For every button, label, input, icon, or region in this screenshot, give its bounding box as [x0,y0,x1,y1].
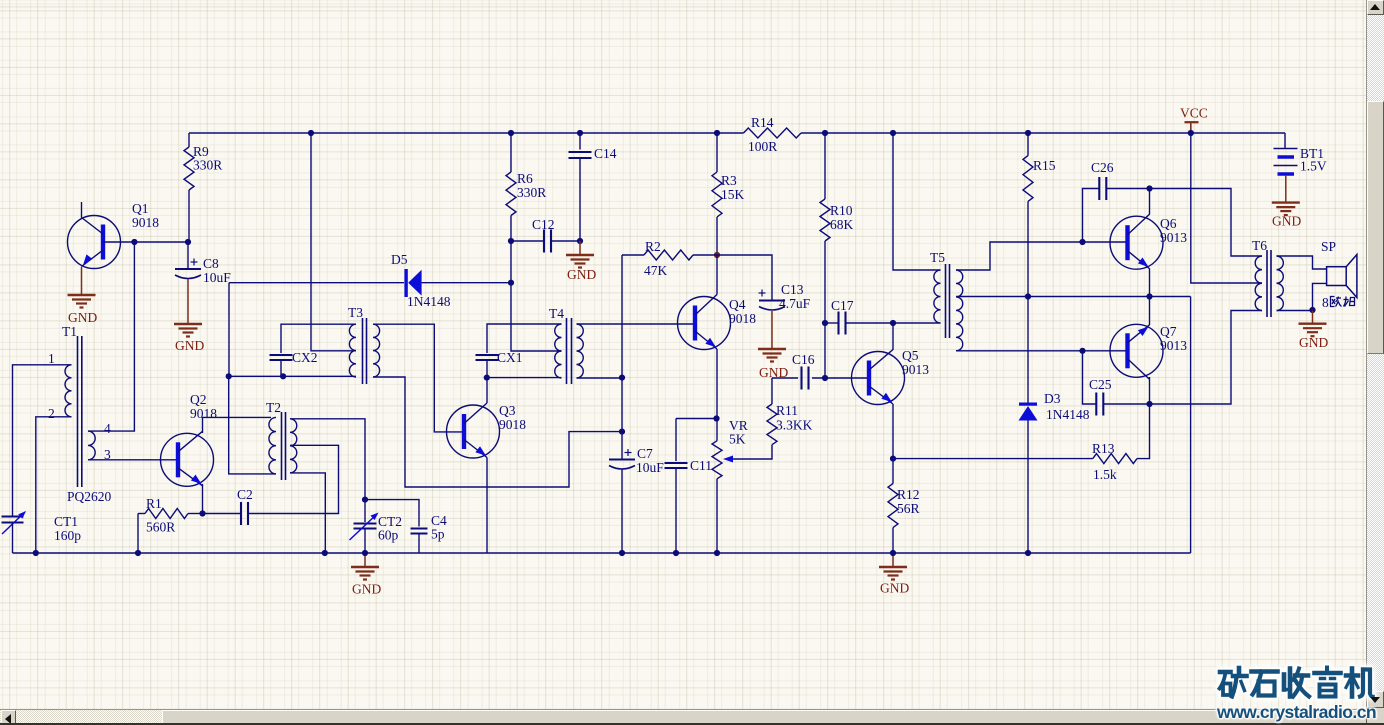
wire T2 right bottom to bus [290,473,325,553]
wire C25 node to T6 left bottom [1150,311,1263,405]
wire T1 pin1 to CT1 [13,365,72,516]
wire T3 middle tap drop from rail [311,133,356,351]
junction base node x134 [131,239,137,245]
junction R10/C17 [822,320,828,326]
capacitor C12 [511,240,544,242]
transformer T4 [566,318,568,384]
junction R2/C7 node [619,429,625,435]
battery BT1 1.5V [1284,133,1286,149]
resistor R13 1.5k [893,458,1093,460]
capacitor C25 [1083,351,1097,404]
wire Q7 collector (bottom) [1149,377,1151,404]
transformer T5 [945,264,947,338]
diode D3 1N4148 [1027,297,1029,405]
capacitor C26 [1083,189,1100,243]
wire T1 pin3 to Q2 base [88,459,176,461]
wire C26 node to T6 left top [1150,189,1263,257]
resistor R2 47K [622,254,644,256]
ground below speaker [1312,311,1314,324]
wire T1 pin2 to bus [36,417,72,553]
wire T6 right top to speaker [1277,256,1327,269]
junction Q5 emitter/R12/R13 [890,456,896,462]
wire R11 to VR wiper [729,445,772,459]
junction rail x893 [890,130,896,136]
capacitor CX2 [270,354,293,356]
capacitor C13 4.7uF [759,300,785,302]
wire rail to T5 left top [893,133,941,270]
junction bus x622 [619,550,625,556]
junction R6/C12 [508,238,514,244]
transformer T2 [281,412,283,480]
junction Q7 base/C25 [1079,348,1085,354]
wire Q4 emitter [716,349,718,419]
transformer T1 PQ2620 [77,336,79,487]
junction T4/R2 vertical [619,375,625,381]
capacitor C7 10uF electrolytic [621,432,623,460]
transformer T6 [1266,250,1268,317]
junction bus x1028 [1025,550,1031,556]
junction Q6 collector/C26 [1146,185,1152,191]
wire Q6 base [1083,241,1126,243]
junction Q6 base/C26 left [1079,239,1085,245]
resistor R1 560R [138,513,145,515]
junction Q7 collector/C25/R13 [1146,401,1152,407]
capacitor C17 [825,322,839,324]
resistor R11 3.3KK [771,378,773,404]
ground below BT1 [1272,201,1300,203]
wire R2 left drop [621,255,623,432]
junction rail x511 [508,130,514,136]
ground below C13 [758,348,786,350]
variable capacitor CT1 160p [2,515,24,517]
junction rail x580 [577,130,583,136]
junction rail x1191 [1188,130,1194,136]
wire T4 right top to Q4 base [577,323,694,325]
wire Q7 emitter (top) [1149,297,1151,326]
junction Q4 base node (red) [714,252,720,258]
wire VCC drop to T6 center tap [1191,133,1262,283]
wire R1 left to bus [137,514,139,554]
resistor R12 56R [892,459,894,484]
potentiometer VR 5K [716,419,718,441]
transistor Q6 9013 [1110,216,1163,269]
wire T1 pin4 to Q1 base node [88,242,134,431]
wire Q6 collector [1149,189,1151,215]
ground below Q1 [68,294,96,296]
junction Q6/Q7 output node [1146,293,1152,299]
wire T5 left bottom [893,322,941,324]
resistor R6 330R [510,133,512,172]
diode D5 1N4148 [229,282,404,284]
junction rail x717 [714,130,720,136]
wire T5 right top [956,242,1083,270]
wire Q4 collector [716,255,718,295]
wire T4 left middle tap from R6/D5 node [511,283,562,351]
vertical scrollbar [1366,0,1384,725]
resistor R15 [1027,133,1029,156]
wire VCC top rail left segment [189,132,744,134]
junction rail x311 [308,130,314,136]
junction D5/R6 node [508,280,514,286]
wire ground bus [13,552,1191,554]
ground below C8 [174,323,202,325]
junction bus x676 [673,550,679,556]
wire output node drop to bus [1190,297,1192,554]
junction bus x35.8 [33,550,39,556]
resistor R10 68K [824,133,826,199]
transistor Q7 9013 [1110,324,1163,377]
wire Q2 collector to T2 [203,417,272,433]
junction Q2 emitter/R1 [199,510,205,516]
wire T5 middle tap to output node [956,296,1191,298]
transistor Q1 9018 [68,216,121,269]
junction bus x717 [714,550,720,556]
wire Q1 emitter to ground [81,267,83,295]
junction base node x188 [185,239,191,245]
wire Q4 node to C13 [717,255,772,301]
junction R10/C16/Q5base [822,375,828,381]
junction CX1/T4 bottom [484,375,490,381]
speaker SP 8 ohm [1327,267,1347,286]
wire D5 anode node down [228,283,230,377]
wire node to T3 bottom [229,375,356,377]
wire T5 right bottom to Q7 base [956,350,1126,352]
wire BT1 to ground [1285,176,1287,203]
junction R15/D3 node [1025,293,1031,299]
junction Q4 emitter/VR/C11 [713,415,719,421]
variable capacitor CT2 60p [364,500,366,522]
resistor R3 15K [716,133,718,172]
horizontal scrollbar [0,709,1367,725]
wire Q5 emitter [892,404,894,459]
wire T2 right top to CT2 [290,419,365,500]
transistor Q3 9018 [447,405,500,458]
junction bus x324.8 [322,550,328,556]
wire VCC top rail right segment [801,132,1285,134]
wire T2 left bottom to node [229,376,276,474]
junction C17/T5/Q5 collector [890,320,896,326]
ground below CT2 at bus [364,553,366,567]
wire Q6 emitter [1149,269,1151,297]
capacitor C8 10uF electrolytic [187,242,189,269]
wire CX2 top to T3 top tap [281,324,356,353]
wire T3 right top to Q3 base [373,324,462,432]
transistor Q5 9013 [852,352,905,405]
transistor Q2 9018 [161,433,214,486]
resistor R14 (inline in rail) [744,128,802,138]
wire speaker bottom to T6 right bottom [1277,283,1327,310]
capacitor C2 [203,513,242,515]
wire Q3 emitter to bus [486,458,488,554]
wire Q5 collector [892,323,894,350]
ground below R12 at bus [892,553,894,567]
small chinese label (ohm) glyphs [1331,297,1355,307]
ground below C14/C12 [579,241,581,255]
resistor R9 [188,133,190,147]
wire CT1 to bus [12,523,14,554]
transformer T3 [362,318,364,384]
transistor Q4 9018 [678,297,731,350]
wire Q3 collector up [486,378,488,403]
capacitor C4 5p [365,500,419,527]
wire Q2 emitter down [202,484,204,514]
power VCC symbol [1185,121,1199,123]
capacitor C14 [579,133,581,150]
wire CX1 top to T4 top tap [487,324,562,353]
junction bus x138 [135,550,141,556]
wire T4 bottom tap [487,377,562,379]
junction rail x1028 [1025,130,1031,136]
junction C12/C14/GND [577,238,583,244]
wire T4 right bottom to R2 node [577,377,623,379]
junction node x229 y376 [226,373,232,379]
junction bus x365 [362,550,368,556]
watermark url [1217,702,1377,723]
wire T3 right bottom snake to C7 node [373,377,622,487]
wire Q1 base to node [103,241,188,243]
capacitor CX1 [476,354,499,356]
capacitor C11 [676,418,717,420]
junction T2top/CT2/C4 [362,497,368,503]
junction bus x893 [890,550,896,556]
junction rail x825 [822,130,828,136]
wire C2 to T2 middle tap [248,445,339,513]
capacitor C16 [772,377,798,379]
junction CX2 bottom [280,373,286,379]
junction speaker ground [1309,307,1315,313]
